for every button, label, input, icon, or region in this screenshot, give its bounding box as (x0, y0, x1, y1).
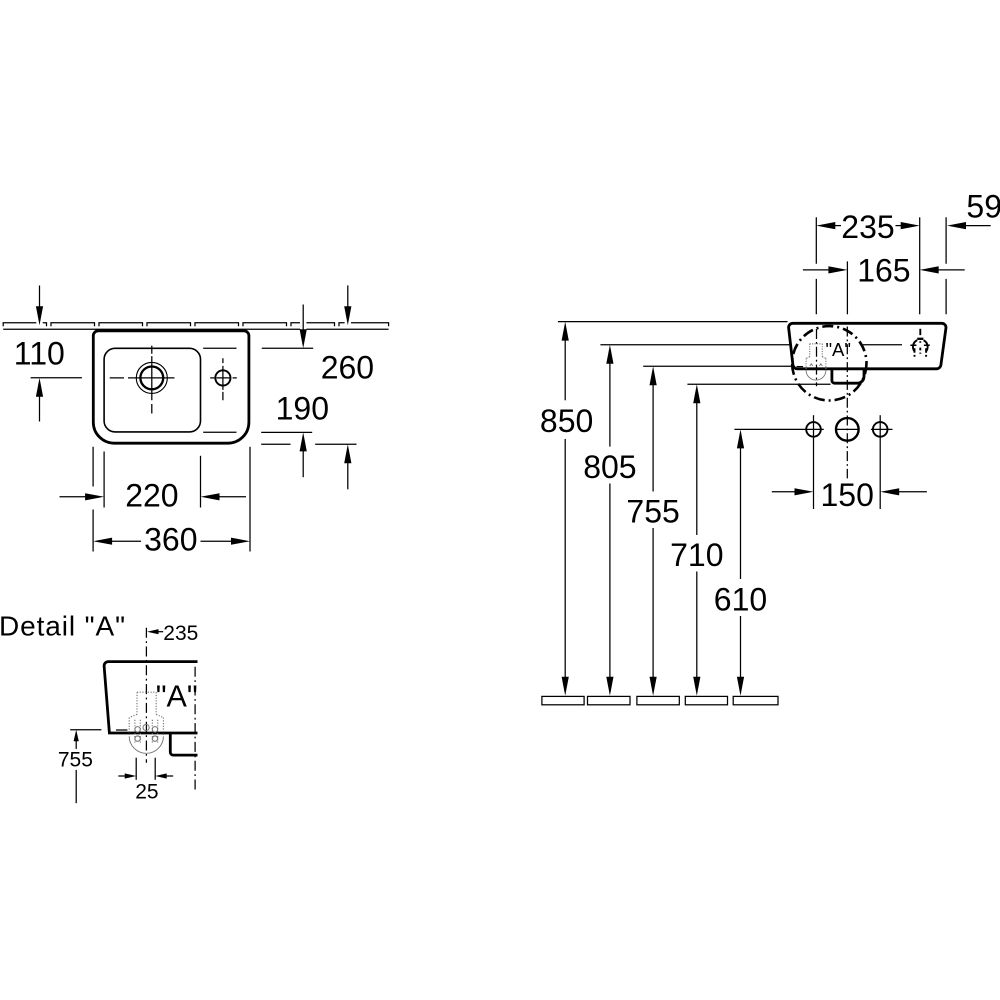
svg-text:150: 150 (821, 477, 874, 513)
dim 610 top arrowhead (737, 429, 744, 448)
dim 360 right arrowhead (231, 538, 250, 545)
detail dim 25 left ext line (135, 758, 137, 780)
detail A chain circle (792, 326, 866, 400)
dim 220 right arrowhead (201, 493, 220, 500)
floor tile 4 (685, 696, 727, 704)
drain centerline vertical (151, 346, 153, 414)
detail dim 235 line (158, 631, 163, 633)
detail centerline right (dash-dot) (194, 667, 196, 791)
dim 710 top arrowhead (693, 384, 700, 403)
detail short datum line (116, 729, 127, 731)
dim 150 left arrow line (772, 491, 795, 493)
height line 710 horizontal (687, 383, 830, 385)
detail dim 25 right ext line (154, 758, 156, 780)
dim 110 top arrowhead (36, 306, 43, 325)
ext line bowl left below (103, 452, 105, 508)
dim 235 line left (835, 225, 841, 227)
detail dim 25 right arrowhead (155, 773, 167, 778)
detail dim 25 right arrow line (166, 775, 173, 777)
dim 755 bottom arrowhead (650, 677, 657, 696)
tap hole circle (215, 370, 230, 385)
detail dim 235 arrowhead (147, 629, 159, 634)
svg-text:805: 805 (583, 449, 636, 485)
wall tiles top lines (3, 323, 388, 327)
dim 150 left arrowhead (795, 488, 814, 495)
tap symbol center dashes (919, 348, 921, 354)
dim 165 right arrow line (938, 269, 965, 271)
detail trap left bolt (135, 720, 140, 744)
svg-text:710: 710 (670, 537, 723, 573)
dim 755 top arrowhead (650, 366, 657, 385)
dim 610 bottom arrowhead (737, 677, 744, 696)
dim 220 left arrowhead (85, 493, 104, 500)
dim 710 bottom arrowhead (693, 677, 700, 696)
dim 110 top arrow line (39, 286, 41, 308)
right circle vertical centerline (879, 415, 881, 509)
dim 110 bottom arrowhead (36, 378, 43, 397)
detail centerline trap (dash-dot) (145, 628, 147, 763)
height line 850 horizontal (558, 321, 788, 323)
svg-text:59: 59 (966, 188, 1000, 224)
svg-text:235: 235 (841, 209, 894, 245)
tap symbol top cap (917, 338, 923, 340)
dim 235 right arrowhead (901, 222, 920, 229)
dim 260 ref line basin bottom extension (261, 443, 356, 445)
svg-text:190: 190 (276, 391, 329, 427)
svg-text:"A": "A" (156, 679, 198, 713)
detail dim 755 arrow line upper (75, 741, 77, 749)
svg-text:110: 110 (14, 336, 65, 372)
detail dim 25 left arrowhead (125, 773, 137, 778)
basin body side outline (789, 323, 946, 369)
tap symbol dome (913, 339, 928, 351)
detail trap body sides (129, 718, 163, 737)
ext line basin right below (249, 447, 251, 552)
trap symbol inner marks (810, 364, 823, 366)
dim 260 bottom arrowhead (344, 444, 351, 463)
detail trap shoulders (129, 714, 163, 717)
dim 110 line (31, 377, 82, 379)
middle circle crosshair horizontal (836, 428, 859, 430)
svg-text:755: 755 (58, 749, 93, 772)
dim 165 left arrow line (803, 269, 829, 271)
detail dim 755 arrowhead (74, 730, 79, 742)
drain hole thick ring (140, 367, 163, 390)
svg-text:235: 235 (163, 622, 198, 645)
ext line bowl right below (200, 456, 202, 508)
dim 150 right arrow line (899, 491, 927, 493)
centerline main hole (dash-dot) (846, 327, 848, 479)
svg-text:165: 165 (857, 253, 910, 289)
dim 260 bottom arrow line (347, 463, 349, 490)
detail trap right bolt lower circle (152, 736, 157, 741)
svg-text:360: 360 (144, 521, 197, 557)
svg-text:610: 610 (714, 581, 767, 617)
floor tile 2 (588, 696, 631, 704)
dim 850 vertical line upper (564, 340, 566, 400)
trap symbol bottom arc (806, 370, 826, 380)
detail trap right bolt (152, 720, 157, 744)
detail shroud (170, 733, 197, 755)
detail trap left bolt circle (135, 727, 140, 732)
dim 235 left arrowhead (816, 222, 835, 229)
dim 360 line left (112, 540, 142, 542)
dim 360 line right (201, 540, 232, 542)
detail trap right bolt circle (152, 727, 157, 732)
wall hole middle circle (836, 418, 859, 441)
detail trap left bolt lower circle (135, 736, 140, 741)
dim 805 vertical line upper (609, 363, 611, 446)
svg-text:260: 260 (321, 350, 374, 386)
svg-text:850: 850 (540, 403, 593, 439)
dim 850 top arrowhead (562, 322, 569, 341)
dim 805 vertical line lower (609, 484, 611, 678)
dim 190 top ref line (262, 347, 313, 349)
ext line basin left below (92, 447, 94, 552)
dim 150 right arrowhead (880, 488, 899, 495)
dim 190 top arrow line (302, 305, 304, 331)
floor tile 1 (542, 696, 584, 704)
dim 610 vertical line upper (740, 448, 742, 579)
dim 805 bottom arrowhead (606, 677, 613, 696)
centerline drain (dash-dot) (816, 329, 818, 386)
detail trap neck (137, 692, 156, 714)
tap symbol right leg (925, 348, 927, 356)
ext line tap center above (919, 217, 921, 314)
dim 110 bottom arrow line (39, 396, 41, 421)
drain hole outer thin circle (136, 362, 167, 393)
ext line main hole above (846, 261, 848, 314)
dim 59 arrow line (965, 225, 990, 227)
dim 165 left arrowhead (828, 266, 847, 273)
dim 710 vertical line upper (696, 403, 698, 535)
wall hole right circle (873, 422, 888, 437)
detail trap center circle (143, 724, 149, 730)
dim 235 line right (896, 225, 902, 227)
dim 260 top arrow line (347, 285, 349, 307)
height line 755 horizontal (643, 365, 792, 367)
basin outer outline (top view) (93, 331, 249, 443)
svg-text:755: 755 (626, 493, 679, 529)
dim 850 bottom arrowhead (562, 677, 569, 696)
inner basin bowl (104, 348, 200, 432)
dim 220 right arrow line (219, 496, 246, 498)
dim 710 vertical line lower (696, 572, 698, 678)
dim 850 vertical line lower (564, 439, 566, 678)
dim 755 vertical line lower (652, 528, 654, 678)
detail trap bottom arc (129, 736, 163, 753)
dim 220 left arrow line (60, 496, 87, 498)
svg-text:Detail "A": Detail "A" (0, 611, 126, 642)
dim 190 top arrowhead (300, 329, 307, 348)
ext line basin right above (945, 217, 947, 314)
tap symbol stem dashes (919, 329, 921, 343)
dim 59 arrowhead (947, 222, 966, 229)
floor tile 5 (733, 696, 778, 704)
detail dim 755 arrow line lower (75, 770, 77, 803)
ext line drain center above (815, 217, 817, 314)
drain centerline horizontal (110, 377, 175, 379)
tap hole centerline horizontal (210, 377, 237, 379)
svg-text:25: 25 (135, 781, 158, 804)
wall hole left circle (806, 422, 821, 437)
detail basin outline (104, 662, 197, 733)
deck edge line upper right (203, 347, 236, 349)
height line 805 horizontal (600, 344, 790, 346)
trap symbol body sides (806, 358, 826, 370)
height line 610 horizontal (734, 428, 823, 430)
short datum line left of trap (797, 366, 804, 368)
dim 755 vertical line upper (652, 385, 654, 492)
dim 190 bottom ref line (261, 431, 312, 433)
tap symbol left leg (914, 348, 916, 356)
dim 610 vertical line lower (740, 616, 742, 678)
connector line A to tap symbol (863, 344, 902, 346)
dim 260 top arrowhead (344, 306, 351, 325)
drain shroud below basin (832, 369, 864, 383)
dim 360 left arrowhead (93, 538, 112, 545)
trap symbol shoulders (806, 357, 826, 359)
svg-text:220: 220 (125, 478, 178, 514)
dim 190 bottom arrow line (302, 451, 304, 477)
tap hole centerline vertical (222, 358, 224, 400)
trap symbol neck (hidden gray) (810, 344, 823, 357)
tap symbol crosshair (910, 344, 929, 346)
dim 165 right arrowhead (920, 266, 939, 273)
detail dim 25 left arrow line (118, 775, 125, 777)
detail dim 755 line (70, 729, 101, 731)
dim 805 top arrowhead (606, 345, 613, 364)
left circle vertical centerline (813, 415, 815, 509)
wall bottom line (3, 328, 388, 330)
deck edge line lower right (203, 431, 236, 433)
floor tile 3 (637, 696, 679, 704)
right circle crosshair horizontal (871, 428, 893, 430)
dim 190 bottom arrowhead (300, 432, 307, 451)
